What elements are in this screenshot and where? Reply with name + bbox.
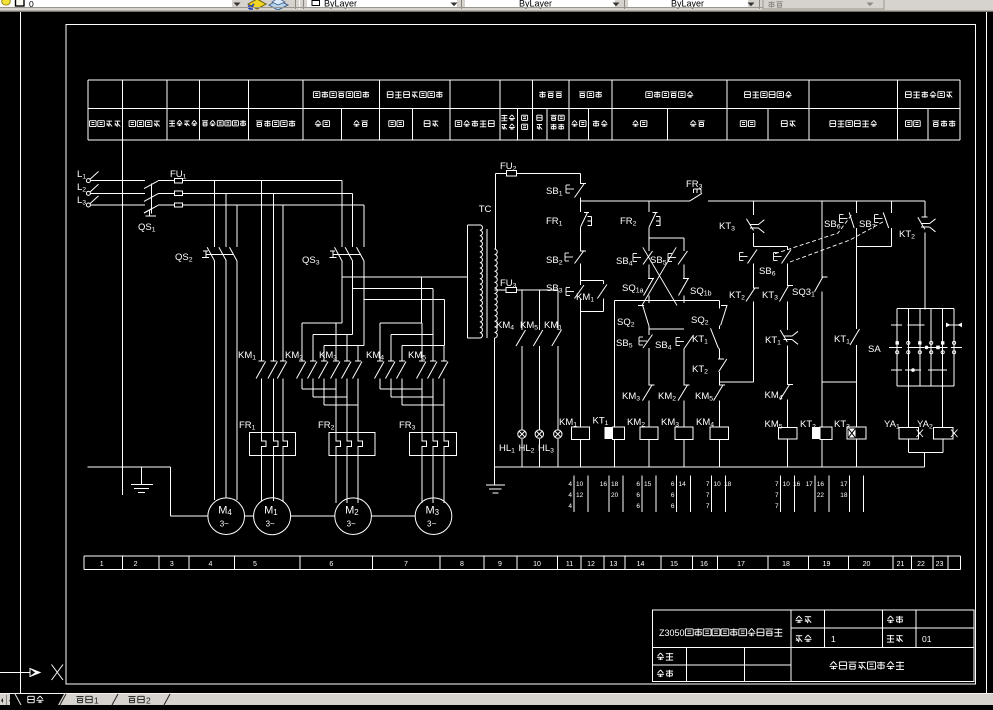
- contact KT2 (NC) on clamp column: [719, 359, 727, 372]
- svg-text:7: 7: [404, 561, 408, 568]
- header row2: 夹紧 (2 lines): [537, 115, 542, 120]
- svg-text:9: 9: [498, 561, 502, 568]
- jog button SB5 lower (NO): [639, 337, 647, 345]
- wire TC secondary bottom to 0V rail: [494, 338, 496, 467]
- control circuit 0V bottom rail: [495, 466, 925, 468]
- limit switch SQ1a: [644, 278, 654, 296]
- tab nav buttons: [0, 695, 6, 705]
- svg-text:11: 11: [566, 561, 573, 568]
- header row2: 控制变压器: [455, 120, 494, 126]
- parallel join SB6/SB7 branch: [857, 245, 892, 247]
- svg-text:TC: TC: [479, 204, 492, 215]
- UCS icon X label: [52, 665, 64, 681]
- contact KT1 delayed (NO) on KM5 branch: [780, 330, 787, 342]
- split to KT3 interlock branch: [754, 246, 788, 248]
- svg-text:22: 22: [917, 561, 925, 568]
- PE bus wire: [88, 466, 171, 468]
- title cell 材料: [795, 616, 811, 623]
- wire TC tap to FU3: [495, 289, 507, 291]
- contact KT3 delayed (NC) top: [753, 201, 755, 215]
- linetype combo: ByLayer: [465, 0, 615, 7]
- fuse FU1 phase A: [158, 180, 174, 182]
- mechanical link SB6 dashed: [775, 215, 852, 254]
- svg-text:13: 13: [610, 561, 618, 568]
- wire numbers under KT1 coil: [608, 476, 610, 513]
- svg-text:18: 18: [782, 561, 790, 568]
- mechanical link cross SB4/SB5: [642, 247, 676, 305]
- svg-text:18: 18: [840, 492, 848, 499]
- wire drops to QS2: [213, 181, 215, 248]
- wires QS3 down to feed lines: [341, 261, 343, 324]
- svg-text:6: 6: [671, 503, 675, 510]
- header row2: 电源开关: [129, 121, 160, 127]
- wire KT1 branch: [614, 301, 616, 428]
- svg-text:7: 7: [706, 492, 710, 499]
- toolbar separator grips: [295, 0, 297, 9]
- svg-text:21: 21: [897, 561, 905, 568]
- feed line phase C lower: [364, 298, 445, 300]
- svg-text:Z3050: Z3050: [659, 628, 685, 638]
- header row2: 主轴电动机: [256, 120, 295, 126]
- svg-text:7: 7: [706, 481, 710, 488]
- contact KM1 (lamp): [552, 330, 562, 346]
- svg-text:23: 23: [936, 561, 944, 568]
- wire numbers under KM1 coil: [573, 476, 575, 513]
- mechanical link SB7 dashed: [790, 221, 885, 262]
- title cell 数量: [796, 635, 812, 642]
- button SB7 upper (NO): [891, 201, 893, 213]
- svg-text:16: 16: [600, 481, 608, 488]
- layer combo dropdown arrow: [234, 3, 241, 7]
- fuse FU1 phase C: [158, 204, 174, 206]
- wire numbers under KM4 coil: [711, 476, 713, 513]
- disconnect switch QS1: [144, 181, 158, 189]
- svg-text:1: 1: [100, 561, 104, 568]
- header row2: 启动: [571, 120, 586, 126]
- header row2: 下降: [690, 120, 705, 126]
- interlock KM3 (NC): [643, 385, 653, 401]
- svg-text:17: 17: [737, 561, 745, 568]
- contact KM5 (lamp): [533, 330, 543, 346]
- ground symbol below TC: [494, 467, 496, 485]
- svg-text:3~: 3~: [427, 520, 436, 529]
- svg-text:7: 7: [775, 492, 779, 499]
- svg-text:6: 6: [636, 492, 640, 499]
- indicator lamp HL1: [518, 430, 526, 438]
- control transformer TC: [467, 225, 469, 338]
- svg-text:20: 20: [863, 561, 871, 568]
- coil KM5: [778, 427, 797, 439]
- header row1: 摇臂升降控制: [646, 91, 694, 97]
- contactor KM2 main contacts: [299, 360, 305, 362]
- layout2 tab: [112, 694, 118, 705]
- title school name 北华航天工业学院: [830, 662, 905, 670]
- function header table grid: [88, 80, 960, 140]
- svg-text:20: 20: [611, 492, 619, 499]
- tab bar background: [0, 694, 993, 705]
- thermal contact FR2 (NC) on lift column: [648, 201, 650, 212]
- svg-text:18: 18: [724, 481, 732, 488]
- contactor KM4 main contacts: [377, 360, 383, 362]
- svg-text:12: 12: [576, 492, 584, 499]
- svg-text:16: 16: [793, 481, 801, 488]
- svg-text:3: 3: [170, 561, 174, 568]
- node L3 terminal: [86, 203, 90, 207]
- wire phase B from L2 to QS1: [90, 192, 145, 194]
- jog button SB4 lower (NO): [676, 338, 684, 346]
- contactor KM1 main contacts: [259, 360, 265, 362]
- thermal relay FR3 box: [409, 432, 456, 455]
- layer lightbulb icon: [2, 0, 11, 5]
- svg-text:14: 14: [679, 481, 687, 488]
- svg-text:01: 01: [922, 634, 932, 644]
- svg-text:10: 10: [783, 481, 791, 488]
- wire split after FR2: [649, 237, 684, 239]
- button SB6 upper (NO): [856, 201, 858, 213]
- layer combo box: [0, 0, 232, 7]
- wire phase C from L3 to QS1: [90, 204, 145, 206]
- wire numbers under KM5 coil: [780, 476, 782, 513]
- header row1: 液压松夹控制: [745, 91, 792, 97]
- coil KT3 (time relay): [847, 427, 866, 439]
- svg-text:4: 4: [568, 492, 572, 499]
- wires QS2 to motor M4: [213, 261, 215, 500]
- svg-text:7: 7: [775, 503, 779, 510]
- coil KM1: [571, 427, 589, 439]
- crossover wires KM2 to KM3 outputs: [302, 388, 336, 390]
- node L1 terminal: [86, 179, 90, 183]
- zone ruler strip: [84, 556, 960, 569]
- wire TC secondary to FU2: [495, 173, 497, 249]
- layer properties manager icon: [269, 0, 288, 10]
- svg-text:6: 6: [671, 492, 675, 499]
- svg-text:7: 7: [706, 503, 710, 510]
- model tab (active, dark): [10, 694, 64, 705]
- button SB6 lower pair (NC): [740, 253, 748, 261]
- wire drops to KM1 contacts: [261, 181, 263, 361]
- header row2: 夹紧: [781, 121, 795, 127]
- svg-text:2: 2: [146, 696, 151, 706]
- solenoid YA1: [907, 386, 909, 427]
- header row2: 主电机转 (2 lines): [551, 115, 565, 120]
- header row2: 下降: [353, 120, 368, 126]
- wires FR2 to motor M2: [335, 455, 337, 503]
- svg-text:16: 16: [700, 561, 708, 568]
- indicator lamp HL2: [535, 430, 543, 438]
- interlock KM2 (NC): [678, 385, 688, 401]
- jog feeds KM2/KM3 group: [302, 322, 342, 324]
- title block frame: [653, 610, 974, 681]
- wire from table divider down: [121, 140, 123, 495]
- fuse FU2: [507, 171, 517, 176]
- header row1: 液压夹紧电动机: [387, 91, 442, 97]
- right screen edge line: [986, 12, 988, 693]
- solenoid YA2: [942, 386, 944, 427]
- svg-text:4: 4: [568, 503, 572, 510]
- motor M3: [415, 498, 452, 535]
- wire numbers under KM3 coil: [676, 476, 678, 513]
- motor M1: [254, 498, 291, 535]
- lineweight combo: ByLayer: [628, 0, 748, 7]
- contact KT2 delayed (NC) on SA column: [924, 201, 926, 217]
- coil KT1 (time relay): [605, 427, 613, 439]
- wires FR3 to motor M3: [421, 455, 423, 503]
- control top rail: [580, 200, 690, 202]
- coil bottom wires to 0V rail: [579, 439, 581, 467]
- limit switch SQ31: [821, 201, 823, 278]
- svg-text:6: 6: [636, 503, 640, 510]
- header row2: 松开: [740, 121, 755, 127]
- title cell 比例: [887, 616, 903, 623]
- svg-text:18: 18: [611, 481, 619, 488]
- ground symbol on PE bus: [140, 467, 142, 485]
- stop button SB1 (NC): [579, 173, 581, 183]
- feed line to transformer primary: [342, 276, 468, 278]
- parallel box top for SQ2 pair / KT1 tap: [615, 300, 720, 302]
- contactor KM3 main contacts: [333, 360, 339, 362]
- contact KT1 (NO) right: [856, 246, 858, 329]
- limit switch SQ2 left: [643, 305, 649, 325]
- svg-text:6: 6: [636, 481, 640, 488]
- svg-text:SA: SA: [868, 344, 881, 355]
- header row2: 短路保护: [169, 120, 197, 126]
- node join KT3 branch: [719, 381, 753, 383]
- thermal contact FR3 on rail (NC): [690, 193, 702, 201]
- jog feeds KM4/KM5 group: [420, 277, 422, 323]
- header row2: 短路保护 (2 lines): [501, 115, 515, 121]
- header row2: 上升: [632, 120, 647, 126]
- color control combo: ByLayer: [307, 0, 457, 7]
- contactor KM5 main contacts: [419, 360, 425, 362]
- UCS icon X arrowhead: [30, 669, 40, 677]
- coil KM4: [710, 427, 729, 439]
- svg-text:4: 4: [568, 481, 572, 488]
- interlock KM4 (NC): [780, 385, 790, 400]
- thermal relay FR1 box: [249, 432, 295, 455]
- wire KM1 column down to coil: [579, 312, 581, 428]
- toolbar background: [0, 0, 993, 11]
- contact KT2 (NC) on KM5 branch: [746, 288, 755, 302]
- indicator lamp HL3: [554, 430, 562, 438]
- wire link between lift columns: [649, 328, 684, 330]
- UCS icon Y axis line: [20, 12, 22, 693]
- svg-text:1: 1: [831, 634, 836, 644]
- node L2 terminal: [86, 191, 90, 195]
- fuse FU1 phase B: [158, 192, 174, 194]
- header row2: 夹紧: [424, 121, 438, 127]
- contact KT3 (NC) second: [780, 285, 789, 301]
- plot style combo disabled: [763, 0, 884, 9]
- cross switch SA: [897, 307, 954, 309]
- wires FR1 to motor M1: [261, 455, 263, 501]
- coil KM2: [640, 427, 658, 439]
- svg-text:15: 15: [670, 561, 678, 568]
- svg-text:15: 15: [644, 481, 652, 488]
- header row2: 冷却泵电动机: [202, 120, 246, 126]
- contact KT1 (NO) on clamp column: [711, 328, 719, 348]
- make object layer current icon: [248, 0, 266, 9]
- coil KM3: [675, 427, 693, 439]
- header row1: 液压分配开关: [906, 91, 953, 97]
- svg-text:7: 7: [775, 481, 779, 488]
- jog button SB4 upper (NO): [633, 254, 641, 262]
- svg-text:3~: 3~: [347, 520, 356, 529]
- wire lamp branch feeds: [521, 290, 523, 330]
- feed line phase B lower: [352, 287, 433, 289]
- header row1: 摇臂升降电动机: [313, 91, 369, 97]
- jog button SB5 upper (NO): [668, 254, 676, 262]
- svg-text:1: 1: [94, 696, 99, 706]
- header row2: 电源进线: [90, 121, 121, 127]
- wire numbers under KM2 coil: [641, 476, 643, 513]
- motor M4: [208, 498, 245, 535]
- svg-text:3~: 3~: [220, 520, 229, 529]
- header row1: 指示灯: [539, 91, 562, 97]
- header row2: 松开 (2 lines): [522, 115, 528, 120]
- header row2: 松开: [389, 121, 404, 127]
- crossover wires KM4 to KM5 outputs: [380, 388, 422, 390]
- contact KM4 (lamp): [516, 330, 526, 346]
- YA bottoms join to 0V rail: [908, 439, 910, 452]
- toolbar bottom edges: [0, 7, 763, 8]
- interlock KM5 (NC): [714, 385, 724, 401]
- svg-text:2: 2: [134, 561, 138, 568]
- title cell 制图: [657, 653, 673, 660]
- wire phase A from L1 to QS1: [90, 180, 145, 182]
- stop button SB2 (NC): [565, 253, 573, 261]
- limit switch SQ1b: [679, 278, 689, 296]
- thermal relay FR2 box: [329, 432, 375, 455]
- svg-text:12: 12: [587, 561, 595, 568]
- svg-text:6: 6: [329, 561, 333, 568]
- svg-text:8: 8: [460, 561, 464, 568]
- coil stubs KT2 KT3 to 0V rail: [821, 439, 823, 467]
- layout1 tab: [60, 694, 66, 705]
- svg-text:16: 16: [817, 481, 825, 488]
- fuse FU3: [506, 288, 516, 293]
- svg-text:10: 10: [714, 481, 722, 488]
- PE bonding wire between motors: [171, 515, 208, 517]
- svg-text:6: 6: [671, 481, 675, 488]
- title cell 审核: [657, 670, 673, 677]
- layer color swatch icon: [16, 0, 25, 6]
- svg-text:22: 22: [817, 492, 825, 499]
- svg-text:10: 10: [576, 481, 584, 488]
- header row2: 上升: [315, 120, 330, 126]
- wire numbers under KT2 coil: [814, 476, 816, 513]
- zone ruler numbers: [100, 561, 944, 568]
- limit switch SQ2 right: [721, 306, 727, 326]
- svg-text:4: 4: [209, 561, 213, 568]
- svg-text:17: 17: [806, 481, 814, 488]
- svg-text:14: 14: [637, 561, 645, 568]
- thermal contact FR1 (NC) on KM1 column: [579, 201, 581, 212]
- disconnect switch QS2: [207, 247, 214, 260]
- start button SB3 with KM1 holding contact (parallel box): [580, 280, 603, 282]
- header row2: 立柱: [906, 121, 921, 127]
- motor M2: [335, 498, 372, 535]
- header row1: 主电机: [579, 91, 602, 97]
- header row2: 主轴箱: [933, 120, 956, 126]
- svg-text:10: 10: [533, 561, 541, 568]
- svg-text:17: 17: [840, 481, 848, 488]
- UCS icon X axis line: [0, 672, 30, 674]
- svg-text:19: 19: [823, 561, 831, 568]
- disconnect switch QS3: [341, 181, 343, 248]
- header row2: 停止: [593, 120, 608, 126]
- header row2: 液压松夹延时: [830, 120, 877, 126]
- svg-text:3~: 3~: [266, 520, 275, 529]
- svg-text:5: 5: [253, 561, 257, 568]
- link KT branch to coils: [822, 381, 857, 383]
- wire numbers under KT3 coil: [849, 476, 851, 513]
- coil KT2 (time relay): [812, 427, 820, 439]
- lamp wires to 0V rail: [521, 439, 523, 467]
- title cell 图号: [887, 635, 903, 642]
- coil KM5 stub to 0V rail: [787, 439, 789, 467]
